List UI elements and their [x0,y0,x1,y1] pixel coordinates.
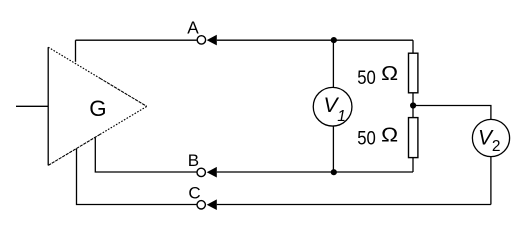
wire: junction down to V1 [332,40,334,87]
generator G triangle bottom edge [48,134,100,165]
wire C right segment [217,204,491,206]
svg-text:Ω: Ω [381,124,398,147]
node A terminal circle [197,36,205,44]
svg-text:50: 50 [357,128,376,150]
wire: R2 bottom to wire B [412,158,414,172]
arrowhead at node C [207,199,217,210]
arrowhead at node B [207,167,217,178]
generator G triangle top edge [48,47,100,78]
resistor R1 [409,53,418,93]
wire: R1 bottom to R2 top [412,93,414,118]
wire A left segment [76,39,197,41]
wire: triangle bottom edge down to wire C [77,149,197,205]
svg-text:Ω: Ω [381,62,398,85]
junction dot on wire A [331,37,337,43]
generator G triangle left edge [47,47,49,165]
wire B right segment [217,171,413,173]
wire: V2 bottom down to wire C [490,157,492,205]
wire: triangle bottom edge down to wire B [95,138,197,172]
arrowhead at node A [207,35,217,46]
junction dot on wire B [331,169,337,175]
junction dot between resistors [410,102,416,108]
svg-text:A: A [187,18,199,38]
node B terminal circle [197,168,205,176]
wire: triangle top edge up to wire A [75,40,77,62]
wire A right segment [217,39,413,41]
voltmeter V1 circle [313,87,352,126]
wire: input stub to G [16,105,48,107]
svg-text:2: 2 [492,138,501,155]
svg-text:1: 1 [337,108,346,125]
wire: junction right and down to V2 [413,106,491,120]
wire: wire A corner down to resistor R1 [412,40,414,53]
voltmeter V2 circle [472,119,509,156]
node C terminal circle [197,201,205,209]
svg-text:B: B [188,151,199,170]
resistor R2 [409,118,418,158]
svg-text:C: C [188,183,200,202]
svg-text:50: 50 [357,67,376,89]
svg-text:G: G [89,96,106,121]
wire: V1 down to wire B junction [332,126,334,172]
